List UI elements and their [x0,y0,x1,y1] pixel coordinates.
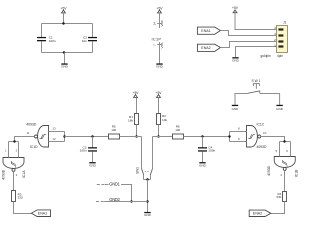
ground symbol below C3 [89,162,97,167]
wire +5V to connector pin 4 [235,13,276,30]
nand gate IC1B [267,157,298,178]
node junction top rail [62,22,64,24]
wire switch common to ground [147,180,149,213]
net wire GND1 [97,182,132,202]
svg-text:4pin: 4pin [277,54,283,58]
wire row left (IC1D to R5) [65,136,109,138]
svg-text:11: 11 [26,131,29,135]
supply +5V symbol above R2 [156,91,163,97]
node GND2 junction at switch [146,200,148,202]
wire C1 lower lead [41,41,43,52]
resistor R4 [276,192,286,202]
svg-text:100n: 100n [49,39,56,43]
svg-text:GND: GND [199,163,207,167]
wire IC1C output pin 10 [261,137,285,142]
node R1 row junction [135,135,137,137]
wire ground to connector pin 1 [236,47,277,58]
svg-text:SW1: SW1 [252,79,261,83]
svg-text:GND2: GND2 [109,197,120,202]
wire IC1C input pin 9 [230,141,247,143]
pushbutton switch SW1 second gang [248,79,261,94]
wire IC1B output pin 4 [284,170,286,191]
wire C3 upper lead [92,137,94,148]
resistor R1 [128,114,139,125]
ground symbol left of pushbutton [232,105,240,111]
net flag ENA1 bottom [31,210,50,217]
node IC1C input junction [228,135,230,137]
svg-text:IC1A: IC1A [22,170,26,178]
svg-text:100n: 100n [80,149,87,153]
wire IC1B input pin 6 [290,142,292,157]
svg-text:330: 330 [18,195,23,199]
svg-text:IC1P: IC1P [152,36,162,41]
wire input tie IC1A [9,141,19,143]
svg-text:VSS: VSS [160,42,164,48]
node C4 junction [201,135,203,137]
wire IC1A input pin 1 [8,142,10,158]
wire to ground [64,53,66,64]
svg-text:SW1: SW1 [136,167,140,174]
nand gate IC1C [247,123,268,149]
wire IC1B input pin 5 [279,142,281,157]
svg-text:4093D: 4093D [257,145,268,149]
wire IC1A input pin 2 [18,142,20,158]
node IC1D input junction [63,135,65,137]
svg-text:+5V: +5V [61,6,68,10]
pin 7 VSS tick [157,44,162,46]
wire +5V to VDD pin [159,13,161,28]
wire +5V to R2 [158,97,160,113]
capacitor C4 [198,145,216,152]
node IC1A input junction [13,140,15,142]
pin 14 VDD tick [157,23,162,25]
wire input tie IC1D [64,132,66,142]
wire ENA1 to connector pin 3 [220,31,276,36]
wire R6 to IC1C [184,136,230,138]
ground symbol below SW1 [144,212,152,217]
wire input tie IC1C [229,132,231,142]
supply +5V symbol above R1 [133,91,140,97]
wire R1 to row [136,125,138,137]
svg-text:VDD: VDD [160,19,164,26]
node switch common junction [146,178,148,180]
svg-text:GND: GND [232,58,240,62]
svg-text:GND: GND [61,65,69,69]
resistor R5 [109,125,120,139]
nand gate IC1D [26,123,48,149]
wire IC1D input pin 12 [49,141,65,143]
wire C4 lower lead [202,152,204,163]
wire IC1A output pin 3 [13,171,15,190]
svg-text:4093D: 4093D [2,169,6,180]
wire C2 upper lead [92,24,94,38]
svg-text:GND: GND [144,213,152,217]
wire input tie IC1B [280,141,291,143]
node IC1B input junction [283,140,285,142]
wire IC1C input pin 8 [230,131,247,133]
svg-text:ENA1: ENA1 [201,29,210,33]
svg-text:GND: GND [276,107,284,111]
wire +5V to top rail [63,13,65,24]
node R2 row junction [157,135,159,137]
wire C2 lower lead [92,41,94,52]
supply +5V symbol at connector [232,6,239,13]
capacitor C1 [37,36,56,43]
svg-text:130: 130 [175,128,180,132]
svg-text:J1: J1 [283,21,287,25]
wire C1 upper lead [41,24,43,38]
connector J1 goldpin 4pin [261,21,288,58]
svg-text:10: 10 [263,131,267,135]
supply +5V symbol top-left [61,6,68,13]
wire +5V to R1 [136,97,138,113]
ground symbol at connector [232,57,240,62]
svg-text:4093D: 4093D [26,123,37,127]
ground symbol right of pushbutton [276,105,284,111]
wire R4 to flag ENA2 [271,202,285,214]
wire bottom rail C1-C2 [42,52,93,54]
wire R3 to flag ENA1 [14,202,32,214]
svg-text:+5V: +5V [232,6,239,10]
wire IC1D input pin 13 [49,131,65,133]
svg-text:14: 14 [152,22,156,26]
svg-text:IC1C: IC1C [257,123,265,127]
resistor R2 [157,114,168,125]
svg-text:10u: 10u [82,39,87,43]
wire IC1D output pin 11 [15,137,35,142]
wire C4 upper lead [202,137,204,148]
wire R2 to row [158,125,160,137]
svg-text:IC1B: IC1B [294,169,298,177]
net flag ENA2 bottom [249,210,271,216]
svg-text:13: 13 [52,127,56,131]
svg-text:10k: 10k [162,118,167,122]
svg-text:ENA2: ENA2 [201,46,210,50]
switch SW1 [136,167,153,180]
wire R5 to switch [120,136,142,138]
svg-text:ENA1: ENA1 [38,212,47,216]
svg-text:2: 2 [274,38,276,42]
capacitor C3 [80,145,97,152]
svg-text:GND: GND [232,107,240,111]
svg-text:ENA2: ENA2 [253,212,262,216]
svg-text:18k: 18k [128,118,133,122]
node GND1-GND2 junction [130,200,132,202]
svg-text:100n: 100n [208,149,215,153]
wire C3 lower lead [92,152,94,163]
wire ENA2 to connector pin 2 [220,42,276,48]
resistor R3 [12,191,23,202]
svg-text:1: 1 [274,44,276,48]
supply +5V symbol for IC1P [157,6,164,13]
wire top rail C1-C2 [42,23,93,25]
capacitor C2 [82,36,97,43]
wire switch right pole drop [152,137,154,169]
svg-text:GND: GND [89,163,97,167]
wire pushbutton left to ground [235,94,248,105]
node junction bottom rail [63,51,65,53]
svg-text:4093D: 4093D [267,165,271,176]
net wire GND2 [96,197,148,202]
ground symbol below IC1P [156,63,164,68]
svg-text:4: 4 [274,26,276,30]
wire row right (switch to R6) [153,136,173,138]
nand gate IC1A [2,158,26,180]
resistor R6 [173,125,184,139]
wire pushbutton right to ground [260,94,280,105]
svg-text:130: 130 [111,128,116,132]
svg-text:12: 12 [52,137,56,141]
svg-text:+5V: +5V [157,6,164,10]
svg-text:330: 330 [276,195,281,199]
svg-text:GND1: GND1 [109,182,120,187]
ground symbol below C1 C2 [61,63,69,68]
wire VSS pin to ground [159,42,161,64]
ground symbol below C4 [199,162,207,167]
svg-text:GND: GND [156,65,164,69]
net flag ENA1 top [197,27,220,34]
node C3 junction [91,135,93,137]
svg-text:IC1D: IC1D [30,145,38,149]
wire switch left pole drop [141,137,143,169]
net flag ENA2 top [197,44,220,51]
svg-text:goldpin: goldpin [261,54,272,58]
svg-text:3: 3 [274,32,276,36]
